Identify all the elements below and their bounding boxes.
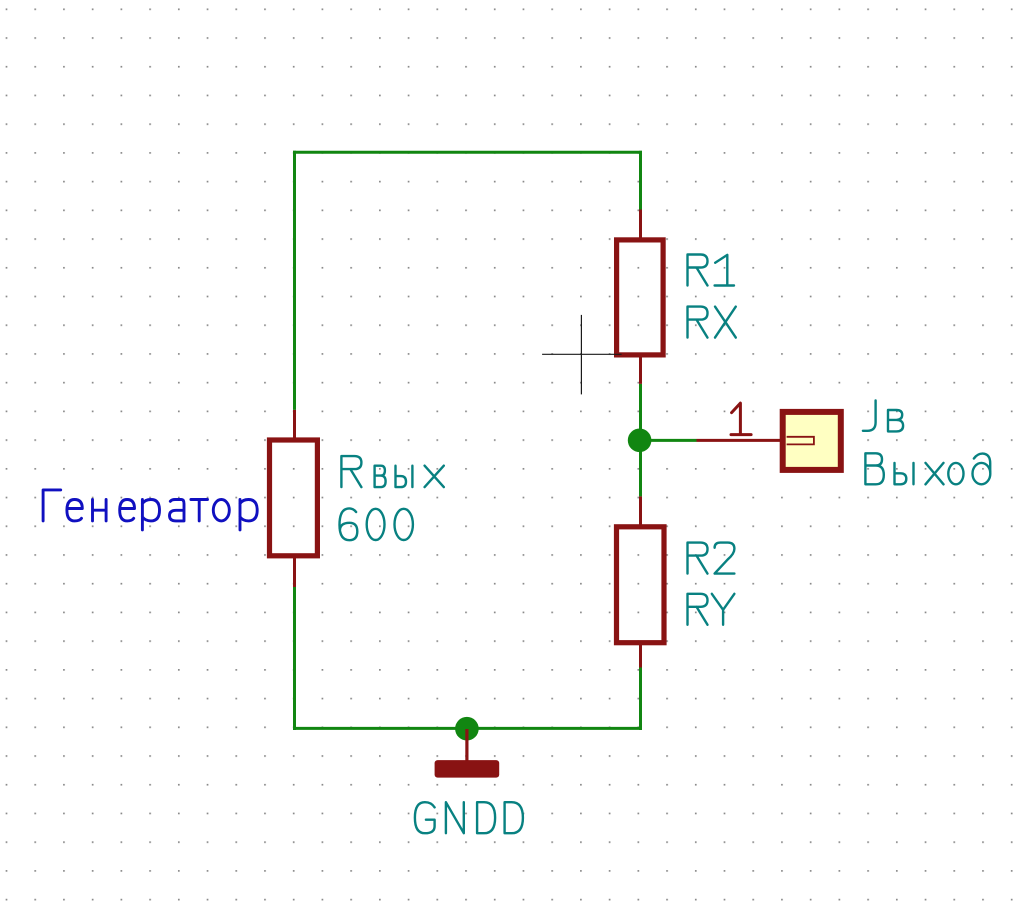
label Rвых reference <box>341 456 443 487</box>
label 600 value <box>340 508 413 540</box>
ground GNDD symbol <box>435 729 500 778</box>
wire bottom horizontal <box>293 727 642 730</box>
resistor R1 (RX) <box>617 210 664 384</box>
label R1 reference <box>688 255 735 286</box>
label RX value <box>688 307 736 338</box>
cursor crosshair <box>542 315 622 395</box>
wire junction to connector pin <box>640 439 697 442</box>
resistor Rвых 600 (generator source) <box>270 410 318 587</box>
connector Jв (Выход) with pin 1 <box>697 412 841 470</box>
label Выход value <box>865 453 990 484</box>
wire R2 to bottom corner <box>639 668 642 731</box>
label Jв reference <box>863 400 903 431</box>
label R2 reference <box>688 543 735 574</box>
pin number 1 of connector Jв <box>731 403 751 435</box>
wire left vertical upper segment <box>293 151 296 410</box>
junction node at ground <box>455 717 479 741</box>
wire from top corner to R1 pin <box>639 151 642 210</box>
wire left vertical lower segment <box>293 587 296 730</box>
label GNDD <box>415 802 523 833</box>
text Генератор <box>43 490 257 530</box>
resistor R2 (RY) <box>617 496 665 667</box>
wire top horizontal <box>293 151 642 154</box>
label RY value <box>688 594 735 625</box>
wire junction to R2 pin <box>639 439 642 496</box>
junction node at divider output <box>628 429 652 453</box>
wire R1 to junction node <box>639 384 642 442</box>
